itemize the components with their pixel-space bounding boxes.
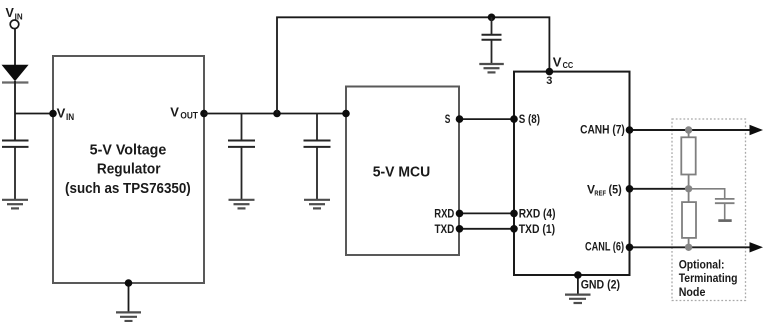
svg-text:CC: CC — [563, 61, 574, 70]
svg-text:Optional:: Optional: — [679, 257, 725, 271]
junction dot regulator VOUT — [200, 110, 208, 118]
svg-text:Regulator: Regulator — [97, 162, 161, 178]
svg-text:S (8): S (8) — [519, 112, 540, 126]
junction dot MCU supply pin — [342, 110, 350, 118]
ground C2 — [229, 200, 255, 209]
svg-text:S: S — [445, 112, 451, 126]
capacitor C3 rail bypass — [304, 114, 331, 200]
arrowhead CANL — [750, 242, 764, 252]
svg-text:CANL (6): CANL (6) — [585, 240, 624, 254]
label VREF (5) pin — [587, 182, 622, 197]
wire termination ladder — [688, 130, 690, 247]
svg-text:OUT: OUT — [180, 111, 198, 121]
svg-text:CANH (7): CANH (7) — [580, 123, 625, 137]
wire VIN terminal to diode — [14, 29, 16, 66]
capacitor CT1 termination — [715, 199, 735, 221]
voltage regulator U1 box — [53, 56, 204, 283]
junction dot regulator VIN — [49, 110, 57, 118]
label optional terminating node — [679, 257, 738, 299]
junction dot CANL pin — [626, 244, 634, 252]
ground regulator — [116, 283, 141, 321]
resistor RT2 — [682, 202, 696, 238]
junction dot S at transceiver — [510, 115, 518, 123]
ground C3 — [304, 200, 330, 209]
wire CANH bus — [630, 129, 752, 131]
junction dot CANH pin — [626, 126, 634, 134]
MCU U2 box — [346, 87, 459, 256]
svg-text:5-V MCU: 5-V MCU — [373, 165, 431, 181]
ground C4 — [479, 64, 504, 72]
svg-text:RXD (4): RXD (4) — [519, 207, 556, 221]
junction dot VREF pin — [626, 185, 634, 193]
junction dot RXD at transceiver — [510, 210, 518, 218]
svg-text:TXD (1): TXD (1) — [519, 222, 555, 236]
junction dot S at MCU — [456, 115, 464, 123]
wire TXD MCU to transceiver — [460, 228, 515, 230]
wire rail riser to VCC top run — [277, 17, 549, 113]
wire diode to input cap — [14, 81, 16, 141]
svg-text:(such as TPS76350): (such as TPS76350) — [65, 181, 191, 197]
resistor RT1 — [681, 137, 695, 174]
wire CANL bus — [630, 246, 752, 248]
ground input cap — [2, 200, 28, 209]
junction dot regulator ground — [125, 279, 133, 287]
junction dot ladder top — [685, 126, 692, 133]
wire 5V rail VOUT to MCU — [204, 113, 346, 115]
arrowhead CANH — [750, 125, 764, 135]
svg-text:5-V Voltage: 5-V Voltage — [90, 142, 167, 158]
capacitor C4 VCC bypass — [482, 17, 502, 63]
svg-text:Terminating: Terminating — [679, 271, 738, 285]
svg-text:IN: IN — [66, 112, 74, 122]
svg-text:TXD: TXD — [435, 222, 455, 236]
junction dot TXD at MCU — [456, 225, 464, 233]
svg-text:GND (2): GND (2) — [581, 277, 620, 291]
wire VREF to termination cap — [689, 189, 725, 199]
wire VREF — [630, 188, 689, 190]
wire RXD MCU to transceiver — [460, 212, 515, 214]
junction dot top rail bypass tap — [488, 13, 496, 21]
junction dot ladder VREF — [685, 185, 692, 192]
junction dot RXD at MCU — [456, 210, 464, 218]
ground transceiver — [565, 275, 591, 303]
label VOUT pin of regulator — [170, 104, 198, 120]
svg-text:V: V — [170, 104, 179, 119]
svg-text:V: V — [57, 105, 66, 120]
capacitor C2 rail bypass — [228, 114, 255, 200]
capacitor C1 input — [2, 141, 29, 200]
svg-text:Node: Node — [679, 285, 706, 299]
wire VIN node to regulator — [15, 113, 53, 115]
CAN transceiver U3 box — [514, 72, 630, 275]
svg-text:V: V — [6, 6, 15, 20]
optional terminating node dashed box — [672, 119, 746, 301]
svg-text:3: 3 — [546, 75, 552, 87]
junction dot transceiver GND — [574, 271, 582, 279]
junction dot ladder CANL — [685, 244, 692, 251]
junction dot rail riser — [273, 110, 281, 118]
label VCC — [553, 55, 574, 71]
junction dot VCC pin — [546, 68, 554, 76]
svg-text:RXD: RXD — [434, 207, 454, 221]
wire S MCU to transceiver — [460, 118, 515, 120]
node VIN input terminal label — [6, 6, 23, 21]
svg-text:V: V — [553, 55, 562, 70]
svg-text:REF: REF — [594, 188, 606, 197]
label VIN pin of regulator — [57, 105, 75, 121]
node VIN input terminal circle — [10, 20, 19, 29]
diode D1 — [2, 65, 29, 83]
junction dot TXD at transceiver — [510, 225, 518, 233]
svg-text:(5): (5) — [609, 182, 622, 196]
